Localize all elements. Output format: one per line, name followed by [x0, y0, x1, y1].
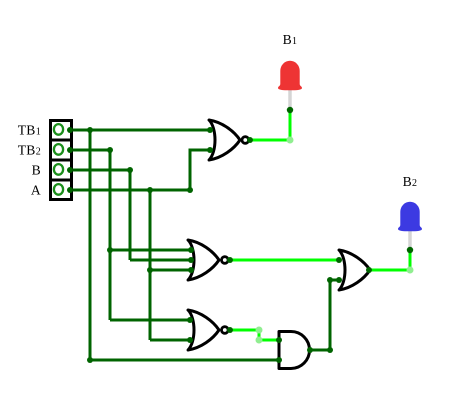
NOR gate U2 (inputs TB2, B, A): [188, 240, 228, 280]
node corner AND riser: [327, 347, 333, 353]
node junction TB1: [87, 127, 93, 133]
LED B1 stem: [288, 89, 292, 110]
input B value 0: [54, 164, 63, 175]
node NOR3 input A: [187, 317, 193, 323]
wire NOR3 output (high): [230, 329, 259, 332]
node NOR1 output: [247, 137, 253, 143]
wire NOR2 output to OR input A (high): [230, 259, 339, 262]
wire A to NOR2 input C: [150, 269, 191, 272]
LED B2 (blue, lit): [398, 202, 422, 232]
node input TB1 pin: [67, 127, 73, 133]
node NOR1 input A: [207, 127, 213, 133]
wire step down (high): [258, 330, 261, 340]
node AND output: [307, 347, 313, 353]
wire TB2 row stub: [70, 149, 110, 152]
node corner TB1 bottom: [87, 357, 93, 363]
node corner OR input B: [327, 277, 333, 283]
node NOR3 output: [227, 327, 233, 333]
node OR input A: [336, 257, 342, 263]
NOR gate U1 (inputs TB1, A): [209, 120, 249, 160]
node NOR2 output: [227, 257, 233, 263]
NOR gate U3 (inputs TB2, A): [188, 310, 228, 350]
wire NOR1 output (high): [250, 139, 290, 142]
wire TB2 to NOR2 input A: [110, 249, 191, 252]
wire TB1 row to NOR1 input A: [70, 129, 210, 132]
wire TB2 vertical bus: [109, 150, 112, 320]
node OR output: [366, 267, 372, 273]
node junction A: [147, 187, 153, 193]
wire up to LED B2 (high): [409, 250, 412, 270]
wire B row stub: [70, 169, 130, 172]
node NOR1 input B: [207, 147, 213, 153]
node NOR2 input B: [188, 257, 194, 263]
node corner high B2: [407, 267, 414, 274]
node LED B1 pin: [287, 107, 293, 113]
wire B to NOR2 input B: [130, 259, 191, 262]
node input TB2 pin: [67, 147, 73, 153]
node NOR3 input B: [187, 337, 193, 343]
wire TB1 bottom run to AND input B: [90, 359, 279, 362]
node junction TB2 mid: [107, 247, 113, 253]
wire riser to OR input B: [330, 280, 339, 350]
node corner A riser: [187, 187, 193, 193]
node input A pin: [67, 187, 73, 193]
node junction TB2: [107, 147, 113, 153]
LED B1 (red, lit): [278, 61, 302, 91]
svg-text:A: A: [31, 183, 41, 198]
wire A to NOR3 input B: [150, 339, 190, 342]
node AND input B: [276, 357, 282, 363]
input TB1 value 0: [54, 124, 63, 135]
input A value 0: [54, 184, 63, 195]
node AND input A: [276, 337, 282, 343]
OR gate U4: [339, 250, 370, 290]
wire A riser to NOR1 input B: [190, 150, 210, 190]
wire TB2 to NOR3 input A: [110, 319, 190, 322]
wire to AND input A (high): [259, 339, 279, 342]
node junction B: [127, 167, 133, 173]
node LED B2 pin: [407, 247, 413, 253]
node NOR2 input C: [188, 267, 194, 273]
node corner high B1: [287, 137, 294, 144]
LED B2 stem: [408, 230, 412, 250]
AND gate U5: [279, 332, 309, 369]
wire TB1 vertical bus: [89, 130, 92, 360]
input block TB1/TB2/B/A: [50, 121, 72, 200]
wire A vertical bus: [149, 190, 152, 340]
node input B pin: [67, 167, 73, 173]
node OR input B: [336, 277, 342, 283]
node junction A mid: [147, 267, 153, 273]
wire AND output to riser: [310, 349, 330, 352]
input TB2 value 0: [54, 144, 63, 155]
wire up to LED B1 (high): [289, 110, 292, 140]
wire OR output (high): [369, 269, 410, 272]
svg-text:B: B: [32, 163, 41, 178]
node NOR2 input A: [188, 247, 194, 253]
wire B vertical bus: [129, 170, 132, 260]
wire A row: [70, 189, 190, 192]
node corner high step top: [256, 327, 263, 334]
node corner high step bottom: [256, 337, 263, 344]
